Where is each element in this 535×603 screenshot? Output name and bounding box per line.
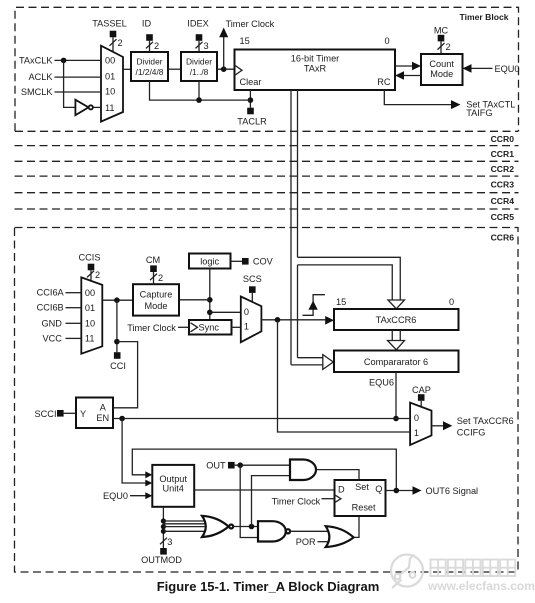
node CCI6A [37, 288, 82, 298]
TASSEL label [92, 18, 127, 52]
wire timer to Count Mode [395, 62, 421, 71]
junction EN wire [119, 416, 125, 422]
wire Divider2 to timer with junction [217, 66, 235, 72]
svg-text:POR: POR [296, 537, 316, 547]
svg-text:1: 1 [244, 321, 249, 331]
wire logic down to Sync [207, 269, 213, 321]
svg-text:CAP: CAP [412, 385, 431, 395]
svg-text:TAxCCR6: TAxCCR6 [376, 315, 417, 325]
svg-text:11: 11 [85, 333, 95, 343]
svg-text:VCC: VCC [42, 333, 62, 343]
wire OR out to Reset [354, 516, 359, 537]
svg-text:Mode: Mode [145, 301, 168, 311]
watermark chinese text [431, 560, 516, 577]
node SCCI [35, 409, 76, 419]
svg-text:www.elecfans.com: www.elecfans.com [427, 579, 535, 593]
svg-text:Timer Clock: Timer Clock [272, 497, 321, 507]
Count Mode box [421, 54, 463, 85]
CAP label [412, 385, 431, 407]
watermark logo circle [391, 555, 423, 589]
svg-text:/1/2/4/8: /1/2/4/8 [136, 67, 164, 77]
svg-text:Reset: Reset [352, 502, 376, 512]
wire Clear / TACLR [237, 90, 267, 126]
wire CCI to A input of EN latch [113, 342, 138, 408]
svg-text:SCS: SCS [243, 274, 262, 284]
inverter U1 [75, 100, 101, 116]
D flip-flop (Set/Reset) [335, 480, 386, 516]
wire CCI branch down [114, 300, 120, 352]
node OUT6 Signal [386, 486, 479, 496]
mux SCS [241, 297, 262, 343]
svg-text:CCR1: CCR1 [491, 149, 515, 159]
Sync box [189, 320, 232, 335]
wire Count Mode to timer [395, 71, 421, 80]
CCR3 separator line [15, 192, 519, 194]
svg-text:CCR0: CCR0 [491, 134, 515, 144]
CCR6 block dashed border [15, 228, 519, 573]
svg-text:Figure 15-1. Timer_A Block Dia: Figure 15-1. Timer_A Block Diagram [157, 579, 380, 594]
node OUT [206, 460, 290, 470]
hollow arrow timer bus to Comparator [291, 355, 333, 370]
svg-text:2: 2 [95, 270, 100, 280]
svg-text:0: 0 [414, 413, 419, 423]
svg-text:logic: logic [200, 257, 219, 267]
logic box [189, 254, 231, 269]
wire NOR out up to AND [252, 476, 291, 527]
divider Divider1 [131, 52, 168, 81]
CCR0 separator line [15, 145, 519, 147]
svg-text:3: 3 [167, 537, 172, 547]
svg-text:2: 2 [118, 38, 123, 48]
node GND [41, 318, 81, 328]
svg-text:Q: Q [375, 484, 382, 494]
svg-text:Capture: Capture [140, 290, 173, 300]
wire TAxCLK to inverter [64, 60, 76, 107]
wire NOR output [233, 524, 258, 530]
svg-text:TAxR: TAxR [304, 64, 327, 74]
svg-text:15: 15 [336, 297, 346, 307]
svg-text:CCR3: CCR3 [491, 180, 515, 190]
svg-text:Output: Output [159, 474, 187, 484]
wire EQU6 branch to Output Unit [122, 419, 152, 487]
node Set TAxCCR6 CCIFG [432, 416, 514, 438]
svg-text:EQU0: EQU0 [495, 64, 520, 74]
mux CAP [410, 403, 431, 445]
svg-text:CCIS: CCIS [79, 253, 101, 263]
node POR [296, 537, 330, 547]
svg-text:TAxCLK: TAxCLK [19, 56, 53, 66]
svg-text:Timer Clock: Timer Clock [127, 323, 176, 333]
wire OUT down to NAND [240, 465, 258, 537]
svg-text:0: 0 [244, 307, 249, 317]
svg-text:D: D [338, 484, 345, 494]
16-bit Timer TAxR box [235, 50, 396, 91]
svg-text:0: 0 [385, 36, 390, 46]
svg-text:SMCLK: SMCLK [21, 87, 54, 97]
bus branch to TAxCCR6 (hollow arrow) [298, 257, 405, 309]
svg-text:Mode: Mode [430, 69, 453, 79]
svg-text:00: 00 [105, 56, 115, 66]
svg-text:Set: Set [355, 482, 369, 492]
wire Sync to SCS mux input 1 [232, 326, 241, 328]
Output Unit4 box [152, 465, 194, 507]
svg-text:CCI6B: CCI6B [37, 303, 64, 313]
svg-text:GND: GND [41, 318, 62, 328]
svg-text:CCR4: CCR4 [491, 196, 515, 206]
wire Capture Mode output [179, 299, 210, 301]
wire SCS mux output to TAxCCR6 capture [261, 316, 334, 325]
svg-text:EQU6: EQU6 [369, 377, 394, 387]
svg-text:MC: MC [434, 25, 449, 35]
svg-text:01: 01 [85, 303, 95, 313]
svg-text:2: 2 [154, 41, 159, 51]
svg-text:01: 01 [105, 72, 115, 82]
node CCI6B [37, 303, 82, 313]
Comparator 6 box [334, 351, 459, 373]
svg-text:CCR6: CCR6 [491, 232, 515, 242]
wire Output Unit to D input [194, 489, 334, 491]
divider Divider2 [181, 52, 217, 81]
svg-text:Y: Y [80, 409, 86, 419]
Timer Clock label (sync) [127, 323, 189, 333]
OUTMOD label [141, 537, 182, 565]
CCR1 separator line [15, 160, 519, 162]
node EQU0 (output unit) [103, 491, 152, 501]
wire OUTMOD vertical [161, 507, 166, 548]
CCR2 separator line [15, 175, 519, 177]
Timer Block dashed border [15, 7, 519, 131]
NAND gate [258, 521, 290, 541]
CCR4 separator line [15, 208, 519, 210]
mux TASSEL [101, 46, 123, 122]
svg-text:Divider: Divider [136, 56, 162, 66]
svg-text:3: 3 [204, 41, 209, 51]
wire EQU6 down [393, 372, 399, 421]
svg-text:Unit4: Unit4 [162, 484, 183, 494]
svg-text:CCR2: CCR2 [491, 164, 515, 174]
wire EN/EQU6 to CAP mux input 0 [113, 418, 410, 420]
node COV [231, 257, 274, 267]
svg-text:2: 2 [446, 42, 451, 52]
svg-text:CCR5: CCR5 [491, 212, 515, 222]
svg-text:TACLR: TACLR [237, 116, 267, 126]
Capture Mode box [133, 284, 179, 315]
MC label [434, 25, 451, 54]
wire mux to Divider1 [123, 68, 131, 70]
CCIS label [79, 253, 101, 281]
svg-text:SCCI: SCCI [35, 409, 57, 419]
wire AND out to Set [316, 470, 359, 480]
TAxCCR6 box [334, 309, 459, 330]
bus TAxR down (left line) [290, 90, 292, 365]
wire to SCS mux input 0 [210, 311, 241, 313]
svg-text:15: 15 [240, 36, 250, 46]
svg-text:Compararator 6: Compararator 6 [364, 357, 428, 367]
svg-text:Divider: Divider [186, 56, 212, 66]
ID label [142, 18, 159, 52]
svg-text:EQU0: EQU0 [103, 491, 128, 501]
node SMCLK [21, 87, 101, 97]
svg-text:RC: RC [377, 77, 391, 87]
svg-text:CM: CM [146, 255, 160, 265]
svg-text:OUT: OUT [206, 460, 226, 470]
hollow arrow TAxCCR6 to Comparator [388, 330, 405, 350]
wire capture signal down to CAP mux [278, 320, 411, 432]
wire Divider1 to Divider2 [168, 68, 181, 70]
svg-text:Timer Block: Timer Block [460, 12, 509, 22]
svg-text:Clear: Clear [240, 77, 262, 87]
svg-text:COV: COV [253, 257, 274, 267]
svg-text:Sync: Sync [199, 323, 220, 333]
svg-text:TASSEL: TASSEL [92, 18, 127, 28]
svg-text:TAIFG: TAIFG [466, 108, 492, 118]
edge capture symbol [303, 295, 325, 316]
OR gate (reset) [326, 526, 354, 547]
wire CCIS mux to Capture Mode [102, 297, 133, 303]
svg-text:CCI6A: CCI6A [37, 288, 65, 298]
svg-text:10: 10 [105, 87, 115, 97]
svg-text:CCIFG: CCIFG [457, 427, 486, 437]
svg-text:11: 11 [105, 103, 115, 113]
svg-text:/1../8: /1../8 [190, 67, 209, 77]
Timer Clock label (dff) [272, 497, 335, 507]
svg-text:10: 10 [85, 318, 95, 328]
NOR gate (output mode 0 detect) [202, 516, 233, 537]
svg-text:2: 2 [158, 273, 163, 283]
svg-text:00: 00 [85, 288, 95, 298]
svg-text:OUT6 Signal: OUT6 Signal [426, 486, 479, 496]
svg-text:IDEX: IDEX [187, 18, 208, 28]
latch A EN (SCCI) box [76, 398, 113, 429]
svg-text:1: 1 [414, 428, 419, 438]
AND gate Q3 [290, 460, 316, 481]
svg-text:Timer Clock: Timer Clock [226, 19, 275, 29]
CM label [146, 255, 163, 284]
svg-text:OUTMOD: OUTMOD [141, 555, 182, 565]
svg-text:ACLK: ACLK [28, 72, 53, 82]
svg-text:A: A [100, 403, 107, 413]
svg-text:CCI: CCI [110, 361, 126, 371]
bus TAxR down (right line) [297, 90, 299, 358]
SCS label [243, 274, 262, 302]
svg-text:ID: ID [142, 18, 152, 28]
mux CCIS [81, 277, 102, 353]
node ACLK [28, 72, 101, 82]
svg-text:EN: EN [96, 413, 109, 423]
wires OUTMOD to NOR inputs [163, 521, 206, 531]
wire RC to Set TAxCTL TAIFG [384, 90, 515, 118]
node VCC [42, 333, 81, 343]
wire NAND out to OR [290, 530, 329, 532]
wire clear to dividers [150, 81, 251, 103]
node CCI [110, 352, 126, 371]
svg-text:Set TAxCCR6: Set TAxCCR6 [457, 416, 514, 426]
svg-text:0: 0 [449, 297, 454, 307]
node Timer Clock (arrow up) [219, 19, 274, 69]
node TAxCLK [19, 56, 101, 66]
svg-text:16-bit Timer: 16-bit Timer [291, 54, 340, 64]
wire OUT6 feedback to Output Unit [132, 449, 396, 490]
node EQU0 (top) [463, 64, 520, 74]
svg-text:Count: Count [429, 59, 454, 69]
IDEX label [187, 18, 208, 52]
